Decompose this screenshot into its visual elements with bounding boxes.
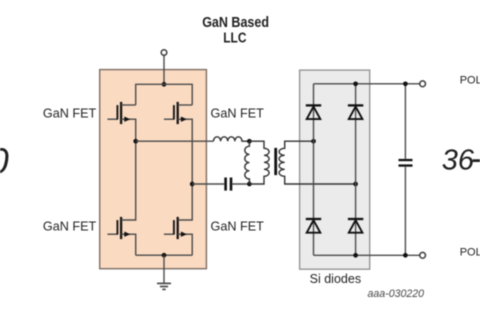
node: secondary bottom to bridge: [353, 182, 358, 187]
svg-text:LLC: LLC: [223, 31, 247, 47]
svg-text:GaN FET: GaN FET: [211, 105, 264, 120]
node: top rail junction: [162, 82, 167, 87]
diode D4 (bottom-right): [348, 219, 363, 233]
transistor Q2 (GaN FET top-right): [164, 102, 192, 141]
inductor Lr (series resonant): [214, 137, 250, 141]
node: top rail at right bridge leg: [353, 81, 358, 86]
terminal: output +: [420, 81, 426, 87]
node: tank top: [247, 139, 252, 144]
wire: top terminal stem: [163, 55, 165, 84]
transistor Q4 (GaN FET bottom-right): [164, 141, 192, 255]
capacitor Cout (output): [399, 84, 413, 256]
svg-text:POL: POL: [460, 75, 480, 87]
diode D3 (bottom-left): [306, 219, 321, 233]
terminal: output -: [420, 252, 426, 258]
transformer core: [274, 148, 277, 175]
label dash of 36- (cut off): [472, 159, 480, 162]
svg-text:aaa-030220: aaa-030220: [368, 288, 425, 300]
node: output cap top: [403, 81, 408, 86]
node: tank bottom: [247, 182, 252, 187]
node: bottom rail junction: [162, 253, 167, 258]
node: half-bridge right midpoint: [190, 182, 195, 187]
svg-text:GaN FET: GaN FET: [43, 105, 96, 120]
capacitor Cr (series resonant): [226, 178, 231, 191]
svg-text:36: 36: [442, 144, 475, 176]
transistor Q1 (GaN FET top-left): [107, 102, 135, 141]
diode bridge box (gray): [300, 70, 370, 269]
wire: bridge left leg: [313, 84, 315, 256]
ground: [157, 255, 171, 289]
wire: capacitor to transformer: [232, 183, 249, 185]
transformer primary winding: [249, 141, 269, 184]
diode D2 (top-right): [348, 105, 363, 119]
terminal: top input: [161, 50, 167, 56]
wire: midpoint to series capacitor: [192, 183, 224, 185]
wire: midpoint to resonant tank: [136, 140, 214, 142]
svg-text:GaN Based: GaN Based: [202, 15, 269, 31]
wire: rectifier top rail: [314, 83, 420, 85]
node: secondary top to bridge: [311, 139, 316, 144]
wire: bottom rail: [136, 254, 193, 256]
diode D1 (top-left): [306, 105, 321, 119]
inductor Lm (magnetizing, vertical): [245, 141, 250, 184]
svg-text:0: 0: [0, 141, 9, 182]
wire: top rail: [136, 84, 193, 105]
svg-text:GaN FET: GaN FET: [211, 219, 264, 234]
FET bridge box (orange): [100, 70, 207, 269]
wire: bridge right leg: [355, 84, 357, 256]
node: bottom rail at right bridge leg: [353, 253, 358, 258]
transformer secondary winding: [279, 141, 355, 184]
svg-text:POL: POL: [460, 247, 480, 259]
transistor Q3 (GaN FET bottom-left): [107, 141, 135, 255]
node: output cap bottom: [403, 253, 408, 258]
node: half-bridge left midpoint: [133, 139, 138, 144]
svg-text:GaN FET: GaN FET: [43, 219, 96, 234]
svg-text:Si diodes: Si diodes: [310, 271, 362, 286]
wire: rectifier bottom rail: [314, 254, 420, 256]
